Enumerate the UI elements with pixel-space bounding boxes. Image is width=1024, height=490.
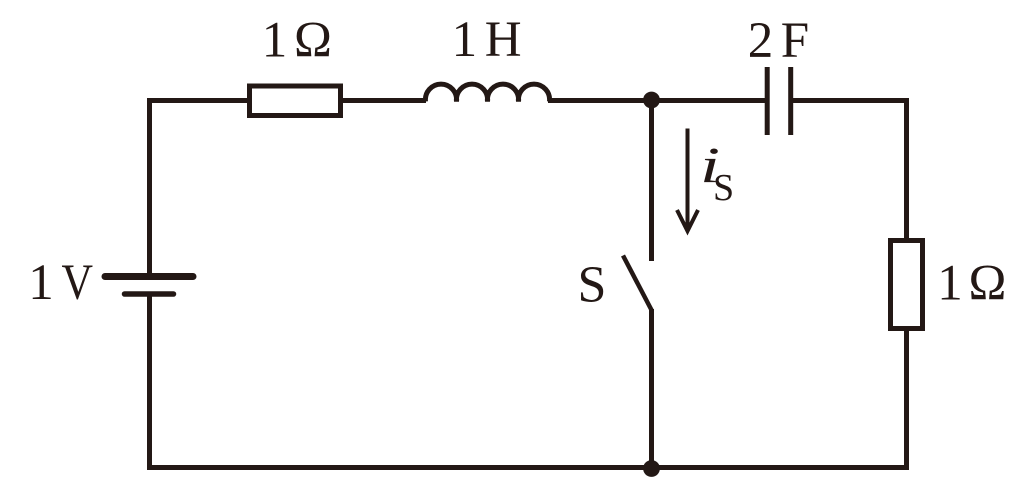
battery V1 1 V : short negative plate: [125, 291, 174, 297]
svg-text:S: S: [713, 167, 734, 209]
current arrow iS : open head: [677, 210, 698, 231]
wire: switch branch upper (node A down to switch S): [649, 101, 654, 262]
svg-text:2: 2: [748, 13, 774, 69]
wire: left vertical (top corner down to battery + plate): [147, 98, 152, 274]
svg-text:F: F: [781, 13, 809, 69]
svg-text:S: S: [578, 257, 607, 314]
svg-text:Ω: Ω: [969, 255, 1007, 311]
inductor L1 1 H (four humps): [425, 84, 549, 101]
node B (bottom junction dot): [643, 460, 660, 477]
svg-text:Ω: Ω: [294, 13, 332, 69]
svg-text:1: 1: [452, 12, 478, 68]
svg-text:1: 1: [937, 255, 963, 311]
capacitor C1 2 F : left plate: [765, 67, 770, 135]
node A (top junction dot): [643, 92, 660, 109]
svg-text:1: 1: [28, 255, 54, 311]
wire: bottom horizontal: [150, 465, 910, 470]
resistor R1 1 ohm (top, box): [250, 86, 341, 116]
wire: switch branch lower (switch S to bottom node B): [649, 309, 654, 468]
battery V1 1 V : long positive plate: [105, 273, 193, 280]
wire: inductor L1 to node A and on to capacitor C1: [548, 98, 765, 103]
wire: top-left horizontal (corner to resistor R1): [150, 98, 248, 103]
svg-text:1: 1: [262, 13, 288, 69]
capacitor C1 2 F : right plate: [788, 67, 793, 135]
current arrow iS : shaft: [686, 129, 690, 230]
svg-text:V: V: [62, 255, 94, 311]
resistor R2 1 ohm (right, box): [891, 241, 923, 329]
wire: resistor R1 to inductor L1: [343, 98, 426, 103]
wire: resistor R2 to bottom-right corner: [904, 331, 909, 468]
wire: bottom-left vertical (battery - plate down to corner): [147, 296, 152, 470]
switch S : blade: [623, 256, 652, 311]
wire: capacitor C1 to top-right corner and down to resistor R2: [793, 101, 907, 239]
svg-text:H: H: [485, 12, 522, 68]
